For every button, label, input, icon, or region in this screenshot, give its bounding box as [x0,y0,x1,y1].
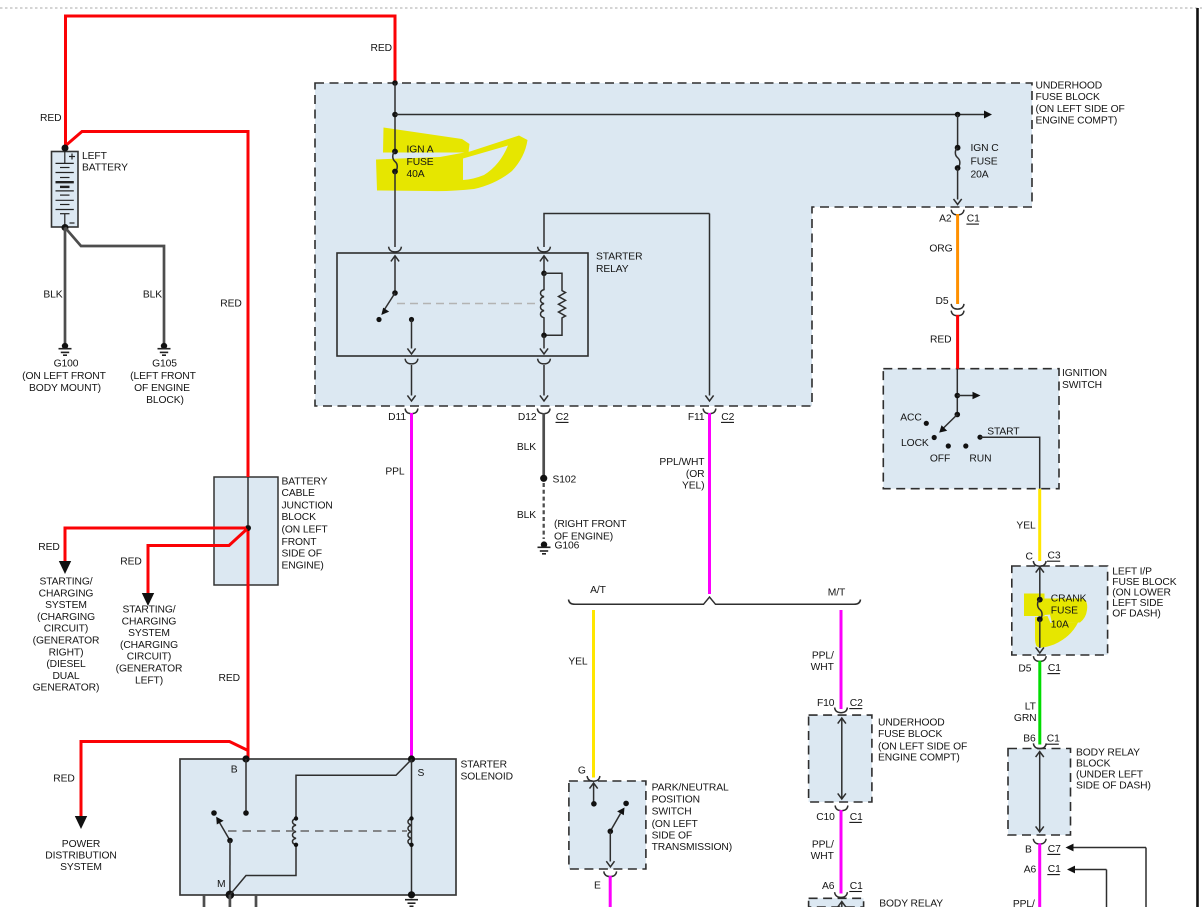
node M terminal [226,891,235,900]
wire PPL/WHT F11 to split [708,413,711,594]
connector cup relay 86 [538,359,551,364]
svg-text:SWITCH: SWITCH [652,807,692,818]
svg-text:BODY RELAY: BODY RELAY [879,899,943,907]
svg-text:START: START [987,426,1020,437]
svg-text:ACC: ACC [900,413,922,424]
svg-text:ENGINE): ENGINE) [282,561,324,572]
node solenoid switch contact [211,810,217,816]
label IGN A FUSE 40A [407,145,434,180]
svg-text:SIDE OF DASH): SIDE OF DASH) [1076,781,1151,792]
svg-text:FUSE: FUSE [971,157,998,168]
resistor parallel with coil [544,273,566,335]
wire PPL D11 to solenoid S [410,413,413,759]
svg-text:PPL/: PPL/ [812,651,834,662]
wire RED battery to junction block [64,132,248,478]
svg-text:RED: RED [53,774,74,785]
connector cup F11 [703,409,716,414]
svg-text:SWITCH: SWITCH [1062,380,1102,391]
node red wire at fuse block border [392,80,398,86]
brace A/T M/T split [569,597,861,604]
arrow into relay [391,256,399,262]
svg-text:BLOCK: BLOCK [1076,759,1111,770]
wire relay to D12 [543,365,545,396]
label UNDERHOOD FUSE BLOCK (second) [878,718,967,764]
svg-text:RED: RED [371,43,392,54]
svg-text:IGNITION: IGNITION [1062,368,1107,379]
connector cup C10/C1 [835,806,848,811]
wire F11 drop [709,214,711,396]
svg-text:OFF: OFF [930,453,950,464]
svg-text:POWER: POWER [62,839,100,850]
svg-text:(ON LEFT SIDE OF: (ON LEFT SIDE OF [1036,104,1125,115]
wire internal junction block lead [247,477,249,525]
left I/P fuse block internals [1036,567,1044,600]
svg-text:(OR: (OR [686,469,705,480]
wire IGN A fuse to starter relay [394,172,396,248]
svg-text:F10: F10 [817,698,835,709]
svg-text:PPL/: PPL/ [812,840,834,851]
svg-text:G: G [578,765,586,776]
wire blade to M terminal [229,841,231,895]
svg-text:(DIESEL: (DIESEL [46,659,86,670]
label STARTER RELAY [596,252,642,276]
connector cup B/C7 [1033,839,1046,844]
svg-text:CHARGING: CHARGING [122,616,177,627]
arrow relay output [407,348,415,354]
wire PPL park/neutral out [609,876,612,907]
svg-text:STARTER: STARTER [596,252,642,263]
svg-text:CRANK: CRANK [1051,594,1087,605]
svg-text:OF ENGINE: OF ENGINE [134,383,190,394]
svg-text:SIDE OF: SIDE OF [652,831,693,842]
label C2 underlined (F10) [849,698,863,709]
label C1 underlined (A6 bottom) [849,881,863,892]
svg-text:RED: RED [40,113,61,124]
svg-text:A6: A6 [1024,865,1037,876]
label UNDERHOOD FUSE BLOCK [1036,81,1125,127]
svg-text:STARTING/: STARTING/ [122,605,175,616]
svg-text:WHT: WHT [811,662,835,673]
body relay block (bottom, cut off) [809,898,864,907]
svg-text:10A: 10A [1051,620,1069,631]
underhood fuse block (L-shaped region) [315,83,1032,406]
svg-text:RED: RED [220,299,241,310]
wire BLK dashed S102 to G106 [543,483,545,539]
label STARTING/CHARGING SYSTEM (GENERATOR RIGHT) [33,577,100,694]
svg-text:S: S [418,768,425,779]
wire RED branch to starting/charging (right) [65,528,246,561]
arrow to starting/charging left [142,593,154,606]
svg-text:C1: C1 [850,812,863,823]
node coil top [541,271,547,277]
svg-text:CIRCUIT): CIRCUIT) [44,624,88,635]
label STARTER SOLENOID [461,760,513,783]
svg-text:D12: D12 [518,412,537,423]
connector cup D12 [537,409,550,414]
arrow at D12 [540,395,548,401]
relay mechanical link dashed [397,303,540,305]
svg-text:C2: C2 [721,412,734,423]
svg-text:SOLENOID: SOLENOID [461,772,513,783]
svg-text:C2: C2 [556,412,569,423]
svg-text:SYSTEM: SYSTEM [60,862,102,873]
underhood fuse block (second, M/T branch) [809,715,872,802]
svg-text:BLK: BLK [43,290,62,301]
svg-text:YEL): YEL) [682,480,705,491]
label IGNITION SWITCH [1062,368,1107,391]
label G100 [22,359,106,395]
svg-text:B6: B6 [1023,734,1036,745]
svg-text:FUSE: FUSE [1051,606,1078,617]
label C1 underlined (A6 right) [1047,864,1061,875]
svg-text:(ON LOWER: (ON LOWER [1112,588,1171,599]
svg-text:IGN A: IGN A [407,145,434,156]
wire coil bottom lead [543,335,545,348]
svg-text:BLK: BLK [143,290,162,301]
connector cup D5/C1 [1033,656,1046,661]
ground G100 [59,343,72,355]
node relay switch pivot [392,290,398,296]
wire BLK D12 to S102 [542,413,545,478]
svg-text:(CHARGING: (CHARGING [37,612,95,623]
starter solenoid block [180,759,456,895]
svg-text:C10: C10 [816,812,835,823]
ignition switch internals [939,369,980,433]
connector cup relay out [405,359,418,364]
svg-text:JUNCTION: JUNCTION [282,500,333,511]
svg-text:(ON LEFT: (ON LEFT [282,525,329,536]
svg-text:S102: S102 [553,474,577,485]
svg-text:A2: A2 [939,214,952,225]
svg-text:(CHARGING: (CHARGING [120,640,178,651]
svg-text:(ON LEFT SIDE OF: (ON LEFT SIDE OF [878,742,967,753]
body relay 2 up arrow [838,902,846,907]
highlighter mark over CRANK FUSE [1024,594,1087,648]
node battery negative [62,224,69,231]
label STARTING/CHARGING SYSTEM (GENERATOR LEFT) [116,605,183,687]
wire relay switch common [394,257,396,294]
wire ORG [956,214,959,304]
wire START output [980,437,1040,489]
svg-text:YEL: YEL [568,657,588,668]
starter relay box [337,253,588,356]
fuse IGN A 40A [392,149,398,175]
arrow coil output [540,348,548,354]
svg-text:D5: D5 [936,296,949,307]
svg-text:RELAY: RELAY [596,264,629,275]
svg-text:RUN: RUN [969,453,991,464]
svg-text:M: M [217,879,225,890]
svg-text:40A: 40A [407,169,425,180]
label C1 underlined (C10) [849,812,863,823]
svg-text:RED: RED [930,335,951,346]
svg-text:SYSTEM: SYSTEM [128,628,170,639]
ground G105 [158,343,171,355]
svg-text:F11: F11 [688,412,705,423]
svg-text:A6: A6 [822,881,835,892]
svg-text:ENGINE COMPT): ENGINE COMPT) [1036,116,1118,127]
label LEFT BATTERY [82,151,128,174]
svg-text:(GENERATOR: (GENERATOR [116,664,183,675]
svg-text:BODY MOUNT): BODY MOUNT) [29,383,101,394]
svg-text:POSITION: POSITION [652,795,700,806]
svg-text:BLOCK): BLOCK) [146,395,184,406]
wire PPL/WHT C10 to A6 [840,810,843,894]
inline connector D5 [951,304,964,316]
svg-text:BATTERY: BATTERY [82,163,128,174]
svg-text:(UNDER LEFT: (UNDER LEFT [1076,770,1144,781]
label C1 underlined (A2) [966,214,980,225]
svg-text:C1: C1 [1047,734,1060,745]
svg-text:LOCK: LOCK [901,438,929,449]
park/neutral switch internals [590,783,629,867]
wire RED battery to underhood fuse block [66,16,396,148]
label IGN C FUSE 20A [971,143,1000,181]
svg-text:LEFT: LEFT [82,151,108,162]
svg-text:CABLE: CABLE [282,488,315,499]
node RUN [963,443,968,448]
svg-text:GENERATOR): GENERATOR) [33,683,100,694]
wire feeder to IGN C fuse [395,114,986,116]
node junction block splice [245,525,251,531]
svg-text:LEFT): LEFT) [135,675,163,686]
coil hold-in winding [408,816,414,847]
svg-text:B: B [1025,845,1032,856]
label BATTERY CABLE JUNCTION BLOCK [282,476,333,571]
connector cup E [604,871,617,876]
wire coil top lead [543,257,545,274]
wire relay out to D11 [411,365,413,396]
svg-text:SYSTEM: SYSTEM [45,600,87,611]
arrow to starting/charging right [59,561,71,574]
left I/P fuse block [1012,566,1108,655]
wire solenoid stub middle [229,895,232,907]
page right border [1196,8,1199,907]
wire RED branch to starting/charging (left) [148,529,247,593]
svg-text:STARTING/: STARTING/ [39,577,92,588]
node START [977,435,982,440]
label G105 [130,359,196,407]
svg-text:ORG: ORG [929,244,952,255]
arrow at D5 out [1036,647,1044,653]
svg-text:BODY RELAY: BODY RELAY [1076,748,1140,759]
underhood fuse block 2 internals (double arrow) [838,718,846,799]
svg-text:(ON LEFT FRONT: (ON LEFT FRONT [22,371,106,382]
svg-text:M/T: M/T [828,588,846,599]
connector cup C/C3 [1033,561,1046,566]
battery cable junction block [214,477,278,585]
solenoid case ground [405,891,418,906]
wire PPL/WHT M/T branch [840,610,843,709]
svg-text:BATTERY: BATTERY [282,476,328,487]
battery left [52,152,79,228]
svg-text:C1: C1 [850,881,863,892]
highlighter mark over IGN A FUSE [376,128,528,192]
fuse IGN C 20A [955,115,961,200]
solenoid switch blade [216,817,230,841]
wire solenoid stub left [203,895,206,907]
wire relay output down [411,320,413,349]
svg-text:FUSE BLOCK: FUSE BLOCK [878,729,942,740]
connector cup relay pin 30 [389,247,402,252]
wire PPL body relay out [1038,843,1041,907]
node feeder junction [392,112,398,118]
svg-text:D5: D5 [1018,664,1031,675]
node splice S102 [540,475,547,482]
arrow into C7 from harness [1066,844,1147,907]
label C2 underlined (F11) [721,412,735,423]
svg-text:LEFT SIDE: LEFT SIDE [1112,598,1163,609]
wire solenoid stub right [255,895,258,907]
label POWER DISTRIBUTION SYSTEM [45,839,116,873]
label C7 underlined [1047,844,1061,855]
node IGN C tap [955,112,961,118]
svg-text:FUSE BLOCK: FUSE BLOCK [1036,92,1100,103]
wire relay coil feed [544,214,710,248]
arrow feeder end [984,111,992,119]
connector cup D11 [405,409,418,414]
svg-text:B: B [231,765,238,776]
arrow into relay coil [540,256,548,262]
svg-text:OF DASH): OF DASH) [1112,609,1160,620]
arrow to power distribution [75,816,87,829]
connector cup B6/C1 [1033,743,1046,748]
svg-text:G100: G100 [54,359,79,370]
svg-text:LEFT I/P: LEFT I/P [1112,566,1152,577]
wire BLK battery to G100 [64,228,67,344]
node coil bottom [541,333,547,339]
arrow at D11 [407,395,415,401]
label PARK/NEUTRAL POSITION SWITCH [652,782,733,853]
svg-text:WHT: WHT [811,851,835,862]
svg-text:G105: G105 [152,359,177,370]
svg-text:FRONT: FRONT [282,537,318,548]
relay switch blade [381,293,395,315]
park/neutral position switch block [569,781,646,869]
label LT GRN [1014,702,1037,724]
svg-text:PPL: PPL [385,467,405,478]
arrow at F11 [705,395,713,401]
svg-text:C1: C1 [1048,864,1061,875]
label C2 underlined [556,412,570,423]
ignition switch block [883,369,1059,489]
wire solenoid B lead [245,759,247,813]
svg-text:G106: G106 [555,541,580,552]
node solenoid B contact [243,810,249,816]
svg-text:C7: C7 [1048,844,1061,855]
svg-text:C1: C1 [1048,663,1061,674]
svg-text:C2: C2 [850,698,863,709]
svg-text:BLOCK: BLOCK [282,512,317,523]
svg-text:(GENERATOR: (GENERATOR [33,636,100,647]
svg-text:UNDERHOOD: UNDERHOOD [1036,81,1103,92]
label C1 underlined (B6) [1046,734,1060,745]
svg-text:CHARGING: CHARGING [39,588,94,599]
coil pull-in winding [292,816,298,847]
label CRANK FUSE 10A [1051,594,1087,631]
fuse CRANK 10A [1037,597,1043,622]
arrow at A2 [954,199,962,205]
node OFF [946,443,951,448]
svg-text:PPL/: PPL/ [1013,899,1035,907]
node relay output contact [409,317,414,322]
label (RIGHT FRONT OF ENGINE) G106 [554,519,627,552]
label PPL/WHT (OR YEL) [659,457,705,491]
svg-text:E: E [594,881,601,892]
body relay block internals (double arrow) [1036,752,1044,833]
wire S lead down [411,759,413,895]
svg-text:RED: RED [219,673,240,684]
wire YEL ignition to C3 [1038,489,1041,561]
svg-text:(RIGHT FRONT: (RIGHT FRONT [554,519,627,530]
svg-text:CIRCUIT): CIRCUIT) [127,652,171,663]
connector cup F10/C2 [835,708,848,713]
connector cup A6/C1 (bottom) [835,892,848,897]
page top dotted border [0,7,1202,9]
svg-text:LT: LT [1025,702,1037,713]
svg-text:20A: 20A [971,170,989,181]
svg-text:RED: RED [38,542,59,553]
arrow into C1 from harness [1067,866,1107,907]
ground G106 [538,541,551,553]
node battery positive [62,145,69,152]
wire LT GRN [1038,661,1041,745]
node solenoid blade pivot [227,838,233,844]
svg-text:TRANSMISSION): TRANSMISSION) [652,842,733,853]
label LEFT I/P FUSE BLOCK [1112,566,1176,619]
wire feeder inside fuse block [394,83,396,150]
wire BLK battery to G105 [65,228,164,344]
svg-text:BLK: BLK [517,510,536,521]
wire YEL A/T branch [592,610,595,778]
wire M to pull-in coil to S [230,760,411,895]
wire crank fuse output [1039,619,1041,648]
svg-text:(LEFT FRONT: (LEFT FRONT [130,371,196,382]
svg-text:FUSE: FUSE [407,157,434,168]
solenoid B terminal [242,755,249,762]
coil winding (inductor) [540,273,544,335]
svg-text:DISTRIBUTION: DISTRIBUTION [45,851,116,862]
wire RED to ignition switch [956,315,959,369]
svg-text:DUAL: DUAL [52,671,79,682]
svg-text:C3: C3 [1048,551,1061,562]
svg-text:RED: RED [120,557,141,568]
label PPL/ WHT (M/T) [811,651,835,673]
connector cup A2/C1 [951,210,964,215]
svg-text:IGN C: IGN C [971,143,1000,154]
label C3 underlined [1047,551,1061,562]
body relay block (right) [1008,749,1071,836]
connector cup relay 85 [538,247,551,252]
svg-text:A/T: A/T [590,585,607,596]
svg-text:D11: D11 [388,412,406,423]
label PPL/ WHT (lower) [811,840,835,862]
label BODY RELAY BLOCK [1076,748,1151,792]
node relay NC contact [376,317,381,322]
svg-text:C: C [1025,552,1033,563]
svg-text:PARK/NEUTRAL: PARK/NEUTRAL [652,782,729,793]
label C1 underlined (D5) [1047,663,1061,674]
node LOCK [932,435,937,440]
svg-text:RIGHT): RIGHT) [49,647,84,658]
svg-text:YEL: YEL [1016,521,1036,532]
connector cup G [587,776,600,781]
svg-text:STARTER: STARTER [461,760,507,771]
solenoid S terminal [408,755,415,762]
svg-text:SIDE OF: SIDE OF [282,549,323,560]
svg-text:ENGINE COMPT): ENGINE COMPT) [878,753,960,764]
svg-text:C1: C1 [967,214,980,225]
